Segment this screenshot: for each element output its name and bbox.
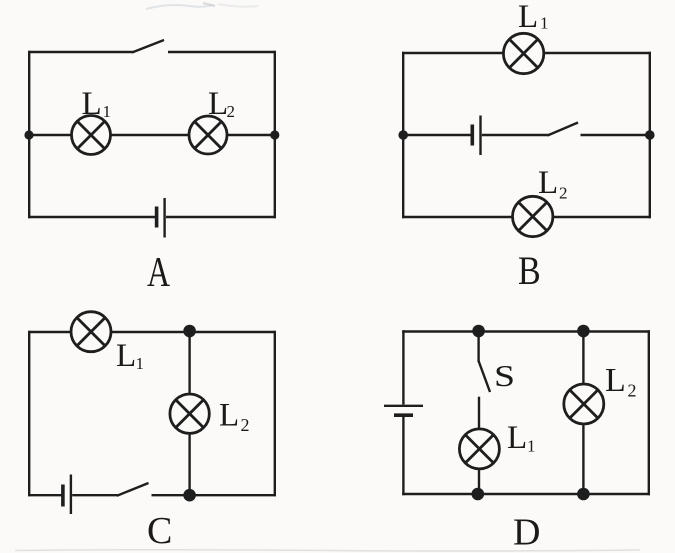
wire C top-left segment [28,331,72,333]
battery B2 short plate (circuit B) [470,125,474,146]
battery B3 long plate (circuit C) [70,475,72,515]
svg-text:S: S [494,359,515,393]
wire A left vertical [28,51,30,218]
wire A middle-center segment [111,134,190,136]
wire D switch lower stub [478,397,480,430]
wire B middle-center segment [482,134,549,136]
lamp L2 (circuit A) [189,116,227,154]
battery B4 long plate (circuit D) [384,405,423,407]
svg-text:2: 2 [227,102,236,121]
battery B2 long plate (circuit B) [479,116,481,156]
svg-text:L: L [518,0,538,35]
wire B bottom-left segment [402,216,513,218]
lamp L2 (circuit B) [513,196,553,236]
battery B3 short plate (circuit C) [61,485,65,507]
switch S3 blade (open) [117,483,149,496]
wire A bottom-left segment [28,216,155,218]
wire D right branch lower [582,424,584,496]
node B left junction dot [398,130,408,140]
svg-text:2: 2 [628,381,637,401]
wire C bottom-right segment [152,494,277,496]
lamp L1 (circuit C) [71,312,111,352]
node C bottom junction dot [183,489,196,502]
svg-text:2: 2 [559,184,568,203]
node D top-left junction dot [472,325,485,338]
wire D switch upper stub [477,331,479,362]
wire B middle-right segment [581,134,651,136]
wire C top-right segment [111,331,276,333]
node A right junction dot [270,130,279,139]
svg-text:C: C [147,510,172,552]
svg-text:L: L [538,165,558,201]
wire D top horizontal [402,330,650,332]
wire A bottom-right segment [166,216,276,218]
lamp L1 (circuit D) [459,429,499,469]
wire D middle branch lower [478,469,480,496]
wire C left vertical [28,331,30,496]
switch S blade (open, circuit D) [479,361,490,392]
wire A right vertical [274,51,276,218]
svg-text:1: 1 [540,14,549,33]
svg-text:1: 1 [136,354,145,373]
svg-text:1: 1 [103,102,112,121]
wire B top-left segment [402,52,504,54]
svg-text:1: 1 [527,437,536,456]
wire A middle-right segment [227,134,275,136]
svg-text:2: 2 [241,415,250,435]
wire B right vertical [649,52,651,218]
wire C bottom-center segment [72,494,118,496]
wire D bottom horizontal [402,493,650,495]
wire D left vertical lower [402,417,404,496]
wire C middle branch upper [188,331,190,395]
wire D right vertical [648,330,650,495]
svg-text:B: B [518,250,541,294]
svg-text:D: D [513,512,540,553]
switch S2 blade (open) [548,123,579,136]
node D top-right junction dot [577,325,590,338]
wire B middle-left segment [403,134,471,136]
wire A top-right segment [168,51,276,53]
battery B4 short plate (circuit D) [394,413,413,417]
wire B left vertical [402,52,404,218]
svg-text:L: L [116,338,136,374]
lamp L1 (circuit A) [72,116,111,155]
switch S1 blade (open) [132,40,164,53]
wire D left vertical upper [402,330,404,404]
node C top junction dot [183,325,196,338]
battery B1 short plate (circuit A) [155,207,159,228]
svg-text:L: L [208,86,228,122]
svg-text:L: L [605,362,626,399]
scan smudge bottom [15,550,640,551]
wire C bottom-left segment [28,494,62,496]
lamp L2 (circuit D) [564,384,604,424]
battery B1 long plate (circuit A) [163,198,165,238]
wire A top-left segment [28,51,133,53]
wire A middle-left segment [29,134,72,136]
wire B top-right segment [544,52,651,54]
node D bottom-right junction dot [577,488,590,501]
svg-text:L: L [507,420,527,456]
node A left junction dot [24,130,33,139]
wire D right branch upper [582,331,584,385]
svg-text:L: L [219,398,239,434]
node D bottom-left junction dot [472,488,485,501]
scan smudge top [146,3,258,9]
wire C right vertical [274,331,276,496]
lamp L2 (circuit C) [170,394,209,433]
lamp L1 (circuit B) [503,33,543,73]
wire C middle branch lower [188,433,190,496]
svg-text:A: A [147,250,170,296]
wire B bottom-right segment [553,216,651,218]
node B right junction dot [645,130,655,140]
svg-text:L: L [82,86,102,122]
